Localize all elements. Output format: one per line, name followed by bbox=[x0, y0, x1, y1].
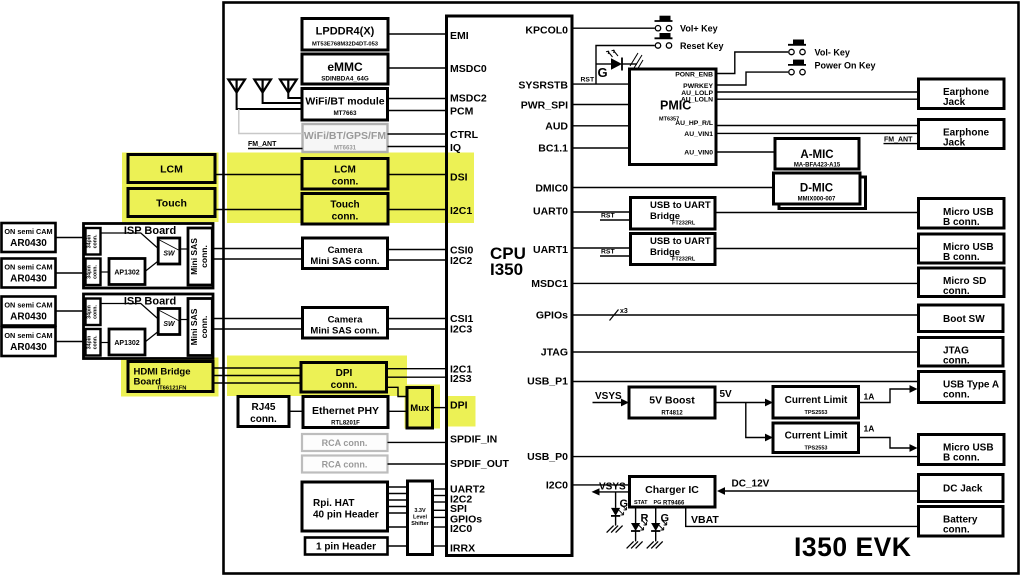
svg-text:UART1: UART1 bbox=[533, 244, 568, 256]
svg-text:conn.: conn. bbox=[943, 356, 970, 367]
connector RJ45 conn. J6 bbox=[238, 397, 289, 427]
highlight LCM/Touch left bbox=[122, 153, 219, 223]
wire HAT f bbox=[388, 526, 408, 528]
connector Mini SAS conn. 1 bbox=[188, 228, 212, 285]
svg-text:I2C3: I2C3 bbox=[450, 324, 472, 336]
svg-text:Shifter: Shifter bbox=[411, 521, 429, 527]
wire SW to Mini SAS 1 bbox=[180, 248, 188, 250]
svg-text:eMMC: eMMC bbox=[327, 60, 363, 74]
LED G reset bbox=[596, 50, 643, 80]
svg-text:x3: x3 bbox=[620, 308, 628, 315]
svg-text:40 pin Header: 40 pin Header bbox=[313, 510, 379, 521]
memory LPDDR4 U2 bbox=[302, 19, 388, 51]
wire LCM to conn bbox=[215, 174, 302, 176]
svg-text:FM_ANT: FM_ANT bbox=[884, 137, 913, 144]
svg-text:EMI: EMI bbox=[450, 30, 469, 42]
connector Micro USB B conn. 3 bbox=[919, 435, 1005, 465]
svg-text:conn.: conn. bbox=[943, 525, 970, 536]
wire AP1302 to SW 1 bbox=[145, 261, 158, 272]
wire MSDC2 bbox=[388, 98, 447, 100]
connector LCM conn. J1 bbox=[302, 159, 388, 190]
net FM_ANT left bbox=[248, 141, 303, 149]
svg-text:RST: RST bbox=[601, 213, 615, 220]
svg-text:STAT: STAT bbox=[634, 500, 648, 506]
wire Mux to DPI bbox=[433, 407, 447, 409]
svg-text:SPDIF_OUT: SPDIF_OUT bbox=[450, 458, 510, 470]
connector Micro SD conn. bbox=[919, 268, 1005, 297]
push button Vol+ Key bbox=[655, 16, 718, 34]
svg-text:Ethernet PHY: Ethernet PHY bbox=[312, 405, 379, 417]
wire I2C2 shifter bbox=[433, 495, 447, 497]
wire GPIOs shifter bbox=[433, 509, 447, 511]
mux U4 bbox=[407, 388, 433, 429]
svg-text:ON semi CAM: ON semi CAM bbox=[4, 331, 52, 340]
highlight DPI pin bbox=[448, 396, 476, 427]
antenna ANT1 bbox=[228, 80, 302, 110]
wire HDMI b bbox=[213, 375, 301, 377]
boost converter 5V Boost RT4812 bbox=[629, 387, 715, 418]
wire 34pin to SW 1 bbox=[101, 233, 159, 249]
bridge USB to UART 2 FT232RL bbox=[631, 234, 716, 265]
wire BC1.1 bbox=[572, 147, 630, 149]
svg-text:Touch: Touch bbox=[330, 200, 359, 211]
wire 34pin to AP1302 1 bbox=[101, 271, 110, 273]
camera sensor AR0430 1 bbox=[2, 223, 56, 252]
wire CSI1 bbox=[388, 318, 447, 320]
wire GPIOs boot bbox=[572, 308, 919, 321]
svg-text:MT6631: MT6631 bbox=[334, 146, 357, 152]
svg-text:AR0430: AR0430 bbox=[10, 274, 47, 285]
wire HAT c bbox=[388, 499, 408, 501]
connector Micro USB B conn. 1 bbox=[919, 199, 1005, 229]
LED G pg bbox=[647, 507, 669, 548]
svg-text:ISP Board: ISP Board bbox=[124, 225, 176, 237]
wire bridge2 to microUSB bbox=[715, 248, 919, 250]
wire bridge1 to microUSB bbox=[715, 212, 919, 214]
svg-text:I2C0: I2C0 bbox=[546, 480, 568, 492]
highlight DSI/I2C1 band bbox=[227, 153, 474, 224]
wire HAT d bbox=[388, 506, 408, 508]
svg-text:G: G bbox=[598, 65, 608, 80]
CPU left pin labels bbox=[450, 30, 510, 555]
wire MSDC1 bbox=[572, 282, 919, 284]
memory eMMC U3 bbox=[302, 54, 388, 84]
svg-text:MSDC0: MSDC0 bbox=[450, 63, 487, 75]
svg-text:SPDIF_IN: SPDIF_IN bbox=[450, 434, 497, 446]
wire mini SAS link1 b bbox=[213, 258, 303, 260]
svg-text:B conn.: B conn. bbox=[943, 217, 980, 228]
wire AU_LOLN bbox=[716, 98, 919, 100]
wire CAM2 bbox=[56, 272, 86, 274]
net RST bridge2 bbox=[600, 249, 631, 257]
CPU right pin labels bbox=[518, 25, 568, 492]
highlight DPI conn band bbox=[227, 356, 407, 397]
svg-text:AU_VIN0: AU_VIN0 bbox=[684, 149, 713, 156]
wire DSI bbox=[388, 174, 447, 176]
wire I2C0 charger bbox=[572, 484, 630, 486]
highlight Mux bbox=[405, 385, 441, 429]
svg-text:RTL8201F: RTL8201F bbox=[331, 421, 360, 427]
wire AU_HP_R/L bbox=[716, 125, 919, 127]
wire PONR_ENB to Vol- key bbox=[716, 52, 788, 74]
LED G vsys bbox=[607, 492, 628, 533]
svg-text:AR0430: AR0430 bbox=[10, 312, 47, 323]
wire SYSRSTB bbox=[572, 83, 630, 85]
wire PWRKEY to Power On key bbox=[716, 72, 788, 85]
svg-text:Camera: Camera bbox=[328, 315, 364, 326]
wire UART2 bbox=[433, 488, 447, 490]
svg-text:conn.: conn. bbox=[93, 335, 99, 349]
wire CAM1 bbox=[56, 237, 86, 239]
svg-text:I2C0: I2C0 bbox=[450, 523, 472, 535]
wire IRRX bbox=[433, 545, 447, 547]
module WiFi/BT MT7663 bbox=[302, 89, 388, 121]
border frame bbox=[224, 3, 1019, 574]
wire DPI conn to Mux bbox=[387, 387, 408, 396]
wire KPCOL0 bbox=[572, 27, 655, 29]
wire I2C1 dpi bbox=[387, 368, 447, 370]
svg-text:MA-BFA423-A15: MA-BFA423-A15 bbox=[794, 163, 841, 169]
svg-text:RJ45: RJ45 bbox=[252, 402, 276, 413]
svg-text:Mini SAS: Mini SAS bbox=[189, 238, 199, 275]
wire 34pin to AP1302 2 bbox=[101, 342, 110, 344]
connector Camera Mini SAS conn. J3 bbox=[303, 238, 388, 269]
svg-text:PONR_ENB: PONR_ENB bbox=[675, 71, 713, 78]
wire mini SAS link2 b bbox=[213, 328, 303, 330]
charger IC U8 RT9466 bbox=[630, 477, 716, 508]
svg-text:B conn.: B conn. bbox=[943, 453, 980, 464]
svg-text:RT9466: RT9466 bbox=[663, 501, 685, 507]
wire reset key branch bbox=[596, 46, 655, 85]
svg-text:VSYS: VSYS bbox=[599, 482, 626, 493]
svg-text:AR0430: AR0430 bbox=[10, 342, 47, 353]
svg-text:Touch: Touch bbox=[156, 198, 187, 210]
svg-text:Mini SAS conn.: Mini SAS conn. bbox=[310, 326, 379, 337]
svg-text:DPI: DPI bbox=[336, 368, 353, 379]
svg-text:1A: 1A bbox=[864, 392, 875, 402]
svg-text:VSYS: VSYS bbox=[595, 391, 622, 402]
level shifter 3.3V bbox=[408, 481, 433, 555]
svg-text:ON semi CAM: ON semi CAM bbox=[4, 227, 52, 236]
connector Touch conn. J2 bbox=[302, 194, 388, 225]
wire MSDC0 bbox=[388, 67, 447, 69]
svg-text:Jack: Jack bbox=[943, 97, 966, 108]
svg-text:VBAT: VBAT bbox=[691, 514, 719, 526]
camera sensor AR0430 3 bbox=[2, 297, 56, 326]
svg-text:Charger IC: Charger IC bbox=[645, 484, 699, 496]
svg-text:AU_VIN1: AU_VIN1 bbox=[684, 131, 713, 138]
wire I2S3 dpi bbox=[387, 376, 447, 378]
svg-text:conn.: conn. bbox=[199, 316, 209, 339]
svg-text:LCM: LCM bbox=[160, 164, 183, 176]
LED R stat bbox=[627, 507, 649, 548]
svg-text:conn.: conn. bbox=[943, 286, 970, 297]
wire JTAG bbox=[572, 351, 919, 353]
wire 5V branch bbox=[746, 403, 767, 438]
connector Micro USB B conn. 2 bbox=[919, 234, 1005, 263]
svg-text:AU_LOLN: AU_LOLN bbox=[681, 97, 713, 104]
svg-text:TPS2553: TPS2553 bbox=[805, 410, 828, 416]
svg-text:1A: 1A bbox=[864, 424, 875, 434]
wire SPI bbox=[433, 501, 447, 503]
svg-text:Power On Key: Power On Key bbox=[815, 61, 876, 71]
svg-text:PWRKEY: PWRKEY bbox=[683, 83, 713, 90]
wire AUD bbox=[572, 125, 630, 127]
svg-text:MSDC1: MSDC1 bbox=[531, 278, 568, 290]
svg-text:Camera: Camera bbox=[328, 245, 364, 256]
svg-text:USB_P1: USB_P1 bbox=[527, 376, 568, 388]
svg-text:DC Jack: DC Jack bbox=[943, 484, 983, 495]
PMIC U5 MT6357 bbox=[630, 69, 717, 165]
module WiFi/BT/GPS/FM (unpopulated) bbox=[303, 124, 388, 152]
svg-text:WiFi/BT/GPS/FM: WiFi/BT/GPS/FM bbox=[304, 130, 386, 142]
net DC_12V bbox=[717, 479, 919, 495]
wire 1pin to shifter bbox=[388, 545, 408, 547]
wire PCM bbox=[388, 110, 447, 112]
svg-text:JTAG: JTAG bbox=[541, 347, 568, 359]
svg-text:Current Limit: Current Limit bbox=[785, 431, 848, 442]
wire I2C0 shifter b bbox=[433, 516, 447, 518]
svg-text:AP1302: AP1302 bbox=[114, 340, 139, 347]
PHY Ethernet RTL8201F bbox=[303, 397, 388, 428]
svg-text:ON semi CAM: ON semi CAM bbox=[4, 263, 52, 272]
svg-text:RCA conn.: RCA conn. bbox=[322, 438, 368, 448]
svg-text:3.3V: 3.3V bbox=[414, 508, 426, 514]
svg-text:DSI: DSI bbox=[450, 172, 468, 184]
svg-text:conn.: conn. bbox=[331, 380, 358, 391]
bridge USB to UART 1 FT232RL bbox=[631, 198, 716, 230]
svg-text:MT7663: MT7663 bbox=[333, 110, 357, 117]
svg-text:RCA conn.: RCA conn. bbox=[322, 460, 368, 470]
connector USB Type A conn. bbox=[919, 372, 1005, 403]
wire HDMI c bbox=[213, 382, 301, 384]
wire I2C1 touch bbox=[388, 209, 447, 211]
svg-text:KPCOL0: KPCOL0 bbox=[525, 25, 568, 37]
svg-text:conn.: conn. bbox=[332, 212, 359, 223]
svg-text:D-MIC: D-MIC bbox=[800, 183, 833, 195]
push button Reset Key bbox=[655, 33, 724, 51]
wire CAM3 bbox=[56, 310, 86, 312]
svg-text:FM_ANT: FM_ANT bbox=[248, 141, 277, 148]
connector Earphone Jack 2 bbox=[919, 120, 1005, 149]
highlight HDMI bridge bbox=[121, 358, 219, 397]
connector Rpi. HAT 40 pin Header J7 bbox=[302, 482, 388, 531]
svg-text:USB to UART: USB to UART bbox=[650, 200, 711, 211]
svg-text:LCM: LCM bbox=[334, 165, 356, 176]
antenna ANT2 bbox=[254, 80, 302, 104]
wire Touch to conn bbox=[215, 209, 302, 211]
wire SW to Mini SAS 2 bbox=[180, 319, 188, 321]
svg-text:SW: SW bbox=[163, 251, 176, 258]
wire UART1 bbox=[572, 247, 631, 249]
svg-text:Boot SW: Boot SW bbox=[943, 314, 985, 325]
wire CAM4 bbox=[56, 341, 86, 343]
wire SPDIF_IN bbox=[388, 441, 447, 443]
svg-text:SYSRSTB: SYSRSTB bbox=[518, 80, 568, 92]
svg-text:IT66121FN: IT66121FN bbox=[158, 386, 187, 392]
connector Mini SAS conn. 2 bbox=[188, 299, 212, 356]
switch SW 1 bbox=[158, 238, 180, 264]
wire RJ45 to PHY bbox=[289, 410, 303, 412]
svg-text:USB_P0: USB_P0 bbox=[527, 451, 568, 463]
push button Vol- Key bbox=[788, 40, 850, 58]
connector 34pin conn. 1b bbox=[86, 259, 101, 286]
svg-text:Reset Key: Reset Key bbox=[680, 41, 724, 51]
wire SPDIF_OUT bbox=[388, 463, 447, 465]
svg-text:FT232RL: FT232RL bbox=[672, 257, 696, 263]
wire IQ bbox=[388, 146, 447, 148]
svg-text:conn.: conn. bbox=[250, 414, 277, 425]
current limit U6 TPS2553 bbox=[773, 387, 859, 419]
svg-text:I2C2: I2C2 bbox=[450, 255, 472, 267]
svg-text:IQ: IQ bbox=[450, 142, 461, 154]
wire CSI0 bbox=[388, 249, 447, 251]
connector 34pin conn. 2b bbox=[86, 329, 101, 356]
connector DC Jack bbox=[919, 475, 1004, 502]
svg-text:Vol- Key: Vol- Key bbox=[815, 48, 850, 58]
net FM_ANT right bbox=[884, 137, 919, 144]
wire mini SAS link1 a bbox=[213, 248, 303, 250]
svg-text:USB to UART: USB to UART bbox=[650, 236, 711, 247]
connector Camera Mini SAS conn. J4 bbox=[303, 308, 388, 339]
svg-text:CTRL: CTRL bbox=[450, 129, 479, 141]
svg-text:TPS2553: TPS2553 bbox=[805, 446, 828, 452]
connector JTAG conn. bbox=[919, 338, 1004, 367]
svg-text:RT4812: RT4812 bbox=[661, 411, 683, 417]
wire AU_LOLP bbox=[716, 91, 919, 93]
svg-text:A-MIC: A-MIC bbox=[800, 149, 833, 161]
svg-text:Mux: Mux bbox=[410, 403, 430, 414]
svg-text:SDINBDA4_64G: SDINBDA4_64G bbox=[321, 76, 369, 83]
switch SW 2 bbox=[158, 309, 180, 335]
antenna ANT3 bbox=[280, 80, 302, 99]
module ISP Board 2 bbox=[84, 294, 214, 359]
connector 34pin conn. 1a bbox=[86, 228, 101, 255]
wire AU_VIN0 bbox=[716, 151, 775, 153]
svg-text:BC1.1: BC1.1 bbox=[538, 143, 568, 155]
camera sensor AR0430 2 bbox=[2, 259, 56, 288]
wire HAT b bbox=[388, 493, 408, 495]
svg-text:DMIC0: DMIC0 bbox=[535, 183, 568, 195]
svg-text:conn.: conn. bbox=[332, 177, 359, 188]
wire PHY to Mux bbox=[388, 410, 407, 412]
svg-text:Mini SAS conn.: Mini SAS conn. bbox=[310, 256, 379, 267]
net VBAT bbox=[686, 507, 919, 526]
svg-text:B conn.: B conn. bbox=[943, 252, 980, 263]
svg-text:WiFi/BT module: WiFi/BT module bbox=[305, 96, 384, 108]
wire EMI bbox=[388, 33, 447, 35]
wire FM antenna gray bbox=[239, 109, 303, 134]
wire I2C2 cam bbox=[388, 259, 447, 261]
connector Earphone Jack 1 bbox=[919, 79, 1005, 109]
svg-text:DC_12V: DC_12V bbox=[732, 479, 770, 490]
svg-text:I2S3: I2S3 bbox=[450, 373, 472, 385]
connector 34pin conn. 2a bbox=[86, 299, 101, 326]
svg-text:Vol+ Key: Vol+ Key bbox=[680, 24, 718, 34]
net VSYS input bbox=[593, 391, 630, 406]
wire DMIC0 bbox=[572, 187, 774, 189]
svg-text:Level: Level bbox=[413, 515, 428, 521]
svg-text:Rpi. HAT: Rpi. HAT bbox=[313, 498, 354, 509]
wire mini SAS link2 a bbox=[213, 318, 303, 320]
ISP chip AP1302 1 bbox=[109, 259, 145, 285]
wire 34pin to SW 2 bbox=[101, 304, 159, 320]
ISP chip AP1302 2 bbox=[109, 329, 145, 355]
svg-text:UART0: UART0 bbox=[533, 206, 568, 218]
switch Boot SW bbox=[919, 305, 1004, 332]
svg-text:Jack: Jack bbox=[943, 138, 966, 149]
svg-text:I350: I350 bbox=[490, 260, 523, 279]
svg-text:I2C1: I2C1 bbox=[450, 205, 472, 217]
svg-text:LPDDR4(X): LPDDR4(X) bbox=[316, 26, 375, 38]
wire AP1302 to SW 2 bbox=[145, 332, 158, 343]
net 5V bbox=[715, 389, 773, 406]
wire HAT e bbox=[388, 512, 408, 514]
svg-text:SW: SW bbox=[163, 321, 176, 328]
connector DPI conn. J5 bbox=[301, 363, 387, 393]
svg-text:conn.: conn. bbox=[93, 265, 99, 279]
svg-text:AUD: AUD bbox=[545, 121, 568, 133]
svg-text:RST: RST bbox=[601, 249, 615, 256]
net RST bridge1 bbox=[600, 213, 631, 221]
wire HDMI a bbox=[213, 367, 301, 369]
svg-text:conn.: conn. bbox=[199, 245, 209, 268]
svg-text:MT53E768M32D4DT-053: MT53E768M32D4DT-053 bbox=[312, 42, 379, 48]
svg-text:conn.: conn. bbox=[93, 234, 99, 248]
connector Battery conn. bbox=[919, 507, 1004, 537]
svg-text:I350 EVK: I350 EVK bbox=[794, 532, 911, 562]
svg-text:FT232RL: FT232RL bbox=[672, 221, 696, 227]
svg-text:AR0430: AR0430 bbox=[10, 238, 47, 249]
svg-text:DPI: DPI bbox=[450, 400, 468, 412]
svg-text:conn.: conn. bbox=[93, 305, 99, 319]
svg-text:AU_HP_R/L: AU_HP_R/L bbox=[675, 120, 713, 127]
camera sensor AR0430 4 bbox=[2, 327, 56, 356]
wire HAT a bbox=[388, 486, 408, 488]
current limit U7 TPS2553 bbox=[773, 423, 859, 453]
microphone A-MIC bbox=[775, 139, 859, 170]
svg-text:PCM: PCM bbox=[450, 106, 474, 118]
wire PWR_SPI bbox=[572, 104, 630, 106]
connector RCA conn. 1 (unpopulated) bbox=[302, 434, 388, 451]
wire I2C0 shifter bbox=[433, 526, 447, 528]
svg-text:Mini SAS: Mini SAS bbox=[189, 308, 199, 345]
wire USB_P0 bbox=[572, 456, 919, 458]
net 1A usbA bbox=[859, 385, 918, 402]
wire UART0 bbox=[572, 211, 631, 213]
connector RCA conn. 2 (unpopulated) bbox=[302, 456, 388, 473]
touch panel module bbox=[128, 189, 215, 217]
wire USB_P1 bbox=[572, 381, 919, 383]
display module LCM bbox=[128, 155, 215, 183]
wire AU_VIN1 bbox=[716, 132, 919, 134]
svg-text:IRRX: IRRX bbox=[450, 543, 475, 555]
svg-text:5V: 5V bbox=[720, 389, 733, 400]
svg-text:MSDC2: MSDC2 bbox=[450, 93, 487, 105]
microphone D-MIC bbox=[774, 173, 866, 209]
svg-text:Current Limit: Current Limit bbox=[785, 395, 848, 406]
wire CTRL bbox=[388, 133, 447, 135]
connector 1 pin Header J8 bbox=[305, 538, 388, 555]
push button Power On Key bbox=[788, 60, 876, 75]
CPU U1 I350 bbox=[447, 16, 573, 556]
svg-text:GPIOs: GPIOs bbox=[536, 310, 568, 322]
net VSYS output bbox=[592, 482, 630, 496]
svg-text:AP1302: AP1302 bbox=[114, 270, 139, 277]
svg-text:PG: PG bbox=[654, 500, 662, 506]
module HDMI Bridge Board IT66121FN bbox=[128, 362, 213, 392]
svg-text:5V Boost: 5V Boost bbox=[649, 395, 695, 407]
